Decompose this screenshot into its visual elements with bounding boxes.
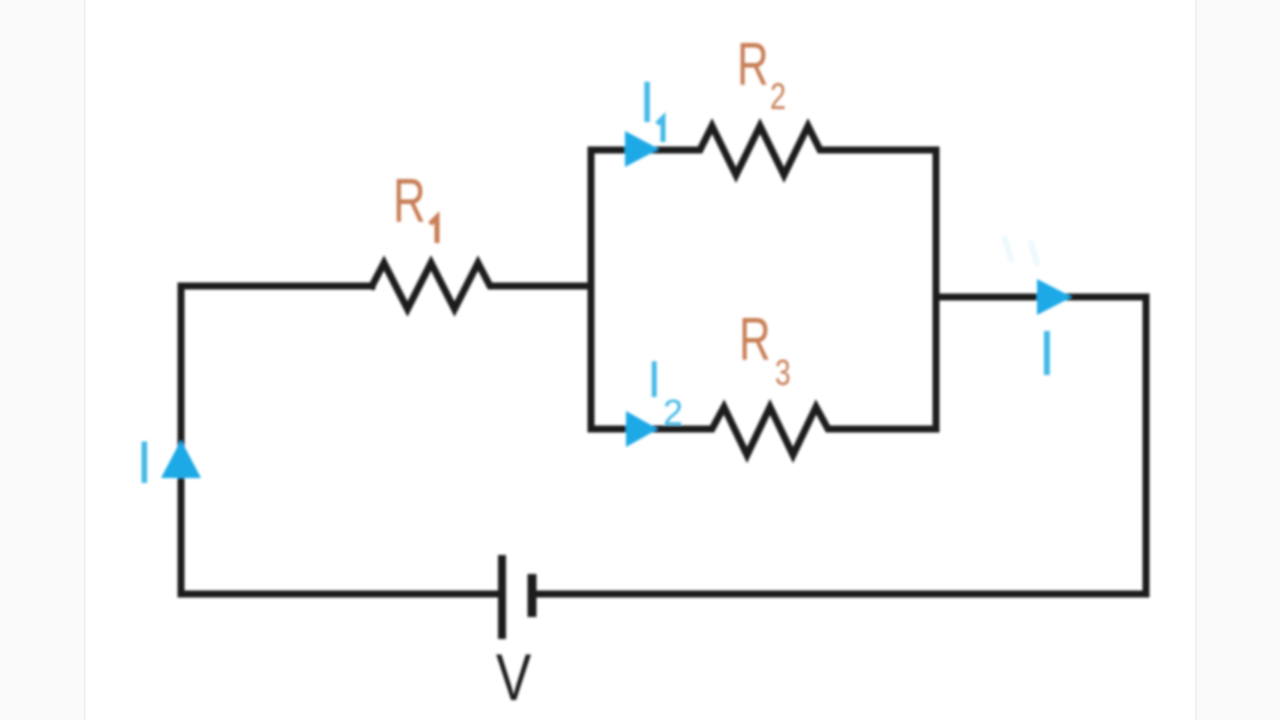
svg-text:2: 2 — [770, 77, 786, 118]
svg-text:I: I — [1038, 317, 1056, 389]
svg-text:I: I — [639, 70, 655, 135]
svg-text:R: R — [393, 166, 426, 236]
svg-text:V: V — [496, 640, 531, 714]
svg-text:R: R — [739, 306, 771, 373]
svg-text:2: 2 — [663, 392, 683, 433]
svg-text:R: R — [737, 31, 769, 98]
svg-text:3: 3 — [775, 353, 791, 393]
svg-text:I: I — [647, 351, 661, 409]
svg-text:I: I — [136, 429, 153, 496]
